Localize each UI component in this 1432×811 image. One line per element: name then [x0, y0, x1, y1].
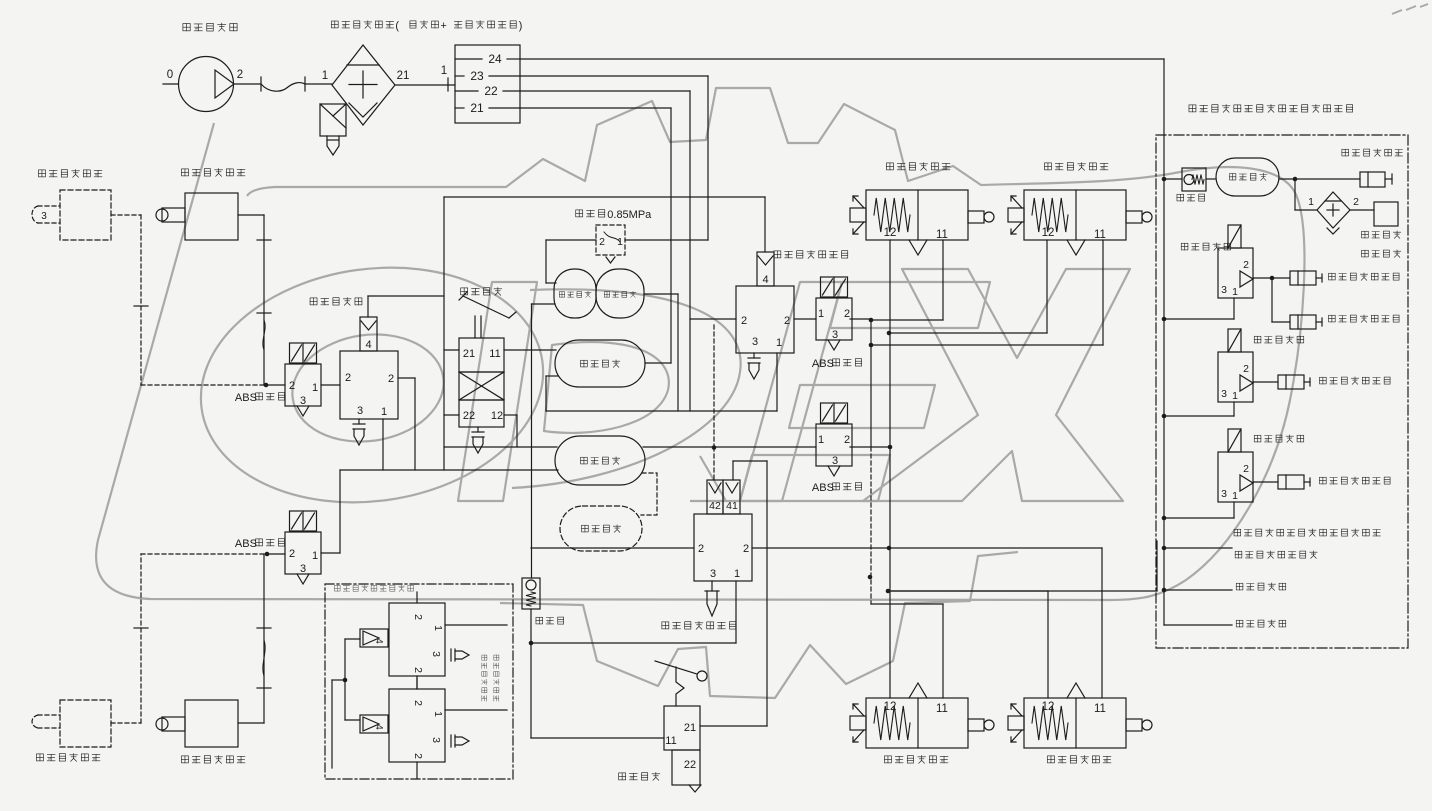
svg-text:3: 3 — [300, 395, 306, 407]
svg-text:2: 2 — [1243, 363, 1249, 375]
svg-text:0: 0 — [167, 69, 173, 81]
svg-text:42: 42 — [709, 500, 721, 512]
svg-text:2: 2 — [237, 69, 243, 81]
svg-text:3: 3 — [300, 563, 306, 575]
svg-text:+: + — [441, 20, 447, 32]
svg-text:1: 1 — [381, 406, 387, 418]
svg-text:1: 1 — [1232, 286, 1238, 298]
svg-text:21: 21 — [463, 348, 475, 360]
svg-text:22: 22 — [684, 759, 696, 771]
svg-text:1: 1 — [818, 308, 824, 320]
svg-text:2: 2 — [599, 236, 605, 248]
svg-text:22: 22 — [484, 84, 498, 98]
svg-text:4: 4 — [373, 638, 384, 644]
svg-text:3: 3 — [1221, 284, 1227, 296]
svg-text:3: 3 — [357, 405, 363, 417]
svg-text:3: 3 — [1221, 488, 1227, 500]
svg-text:2: 2 — [743, 543, 749, 555]
svg-text:2: 2 — [844, 308, 850, 320]
svg-text:2: 2 — [412, 753, 424, 759]
svg-text:11: 11 — [489, 348, 500, 360]
svg-text:): ) — [519, 20, 523, 32]
svg-text:2: 2 — [741, 315, 747, 327]
svg-text:2: 2 — [1243, 259, 1249, 271]
svg-text:12: 12 — [1042, 227, 1055, 239]
svg-text:1: 1 — [734, 568, 740, 580]
svg-text:ABS: ABS — [812, 358, 834, 370]
svg-text:11: 11 — [665, 735, 676, 747]
svg-text:3: 3 — [832, 455, 838, 467]
svg-text:2: 2 — [412, 614, 424, 620]
svg-text:3: 3 — [710, 568, 716, 580]
svg-text:2: 2 — [289, 548, 295, 560]
svg-text:2: 2 — [844, 434, 850, 446]
svg-text:(: ( — [395, 20, 399, 32]
svg-text:3: 3 — [41, 211, 47, 222]
svg-text:21: 21 — [684, 722, 696, 734]
svg-text:21: 21 — [397, 70, 410, 82]
svg-text:2: 2 — [388, 373, 394, 385]
svg-text:ABS: ABS — [235, 538, 257, 550]
svg-text:1: 1 — [1308, 196, 1314, 208]
svg-text:12: 12 — [884, 701, 897, 713]
svg-text:2: 2 — [1243, 463, 1249, 475]
svg-text:11: 11 — [936, 703, 948, 715]
svg-text:3: 3 — [430, 651, 442, 657]
svg-text:2: 2 — [412, 700, 424, 706]
svg-text:3: 3 — [1221, 388, 1227, 400]
svg-text:41: 41 — [726, 500, 738, 512]
svg-text:22: 22 — [463, 410, 475, 422]
svg-text:ABS: ABS — [235, 392, 257, 404]
svg-text:1: 1 — [1232, 490, 1238, 502]
svg-text:4: 4 — [365, 339, 371, 351]
svg-text:1: 1 — [432, 625, 444, 631]
svg-text:1: 1 — [1232, 390, 1238, 402]
svg-text:ABS: ABS — [812, 482, 834, 494]
svg-text:2: 2 — [289, 380, 295, 392]
svg-text:2: 2 — [698, 543, 704, 555]
svg-text:11: 11 — [1094, 229, 1106, 241]
svg-text:2: 2 — [412, 667, 424, 673]
svg-text:23: 23 — [470, 69, 484, 83]
svg-text:12: 12 — [884, 227, 897, 239]
svg-text:3: 3 — [832, 329, 838, 341]
svg-text:1: 1 — [322, 70, 328, 82]
svg-text:11: 11 — [1094, 703, 1106, 715]
svg-text:4: 4 — [762, 274, 768, 286]
svg-text:4: 4 — [373, 724, 384, 730]
svg-text:2: 2 — [784, 315, 790, 327]
svg-text:2: 2 — [345, 372, 351, 384]
svg-text:11: 11 — [936, 229, 948, 241]
svg-text:12: 12 — [491, 410, 503, 422]
svg-text:3: 3 — [752, 336, 758, 348]
svg-text:1: 1 — [312, 550, 318, 562]
svg-text:3: 3 — [430, 737, 442, 743]
svg-text:21: 21 — [470, 101, 484, 115]
svg-text:1: 1 — [776, 337, 782, 349]
svg-text:12: 12 — [1042, 701, 1055, 713]
svg-text:24: 24 — [488, 52, 502, 66]
svg-text:1: 1 — [441, 65, 447, 77]
svg-text:0.85MPa: 0.85MPa — [607, 209, 652, 221]
svg-text:1: 1 — [818, 434, 824, 446]
svg-text:1: 1 — [432, 711, 444, 717]
svg-text:1: 1 — [312, 382, 318, 394]
svg-text:2: 2 — [1353, 196, 1359, 208]
